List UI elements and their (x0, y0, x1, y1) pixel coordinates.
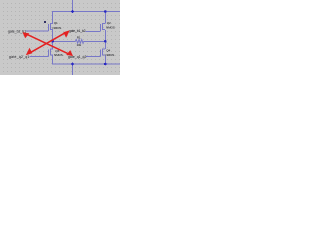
wire gate net 2 (86, 30, 101, 32)
svg-text:10k: 10k (77, 43, 82, 47)
transistor Q2 (101, 23, 106, 31)
resistor R1 zigzag (75, 40, 83, 44)
svg-text:Q1: Q1 (54, 21, 58, 25)
svg-text:Q4: Q4 (106, 49, 110, 53)
transistor Q3 (49, 48, 54, 56)
wire Q2 source to Q4 drain (104, 30, 106, 49)
annotation arrow swap B (double-headed) (30, 33, 65, 53)
svg-text:NMOS: NMOS (106, 26, 115, 30)
wire mid node right (84, 40, 106, 42)
wire gate net 1 (26, 30, 49, 32)
junction bottom stub (71, 63, 74, 66)
transistor Q4 (101, 48, 106, 56)
svg-text:NMOS: NMOS (53, 26, 62, 30)
svg-text:NMOS: NMOS (54, 53, 63, 57)
junction Q2 drain at rail (104, 10, 107, 13)
wire bottom rail (52, 63, 120, 65)
annotation arrow swap A (double-headed) (27, 34, 69, 54)
junction output node (71, 10, 74, 13)
svg-text:Q2: Q2 (107, 21, 111, 25)
svg-text:gate_q1_q2: gate_q1_q2 (68, 55, 86, 59)
wire top rail VDD-node (52, 11, 120, 13)
svg-text:NMOS: NMOS (106, 53, 115, 57)
transistor Q1 (49, 23, 54, 31)
wire rail corner down to Q1 drain (52, 11, 54, 24)
wire gate net 4 (86, 56, 101, 58)
svg-text:gate_q2_q1: gate_q2_q1 (9, 55, 30, 59)
canvas background (0, 0, 120, 75)
wire Q1 source to Q3 drain (52, 30, 54, 49)
junction Q4 source at rail (104, 63, 107, 66)
wire rail to Q2 drain (104, 11, 106, 24)
wire Q4 source to bottom rail (104, 56, 106, 65)
junction mid-left node (51, 40, 54, 43)
svg-text:R1: R1 (77, 35, 81, 39)
wire output stub up (72, 0, 74, 12)
wire gate net 3 (30, 56, 49, 58)
junction mid-right node (104, 40, 107, 43)
wire bottom stub down (72, 64, 74, 75)
svg-text:gate_b1_b2: gate_b1_b2 (69, 29, 86, 33)
wire mid node left (53, 40, 76, 42)
node marker square (44, 21, 46, 23)
wire Q3 source to bottom rail (52, 56, 54, 65)
